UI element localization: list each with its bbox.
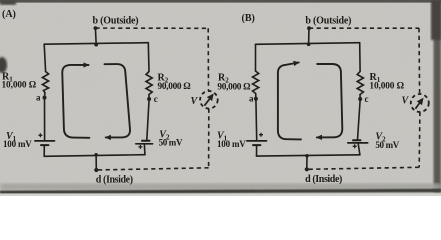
svg-text:c: c <box>365 94 369 104</box>
svg-text:c: c <box>154 94 158 104</box>
svg-text:100 mV: 100 mV <box>3 139 32 149</box>
svg-text:b (Outside): b (Outside) <box>305 16 351 27</box>
svg-text:10,000 Ω: 10,000 Ω <box>2 81 37 91</box>
svg-text:b (Outside): b (Outside) <box>93 16 139 27</box>
svg-text:d (Inside): d (Inside) <box>96 175 133 186</box>
svg-text:90,000 Ω: 90,000 Ω <box>217 83 251 93</box>
svg-text:10,000 Ω: 10,000 Ω <box>369 82 404 92</box>
svg-text:50 mV: 50 mV <box>159 138 183 148</box>
svg-text:a: a <box>249 94 254 104</box>
svg-text:90,000 Ω: 90,000 Ω <box>158 82 192 92</box>
svg-text:(B): (B) <box>242 13 255 24</box>
svg-text:50 mV: 50 mV <box>375 140 399 150</box>
svg-text:(A): (A) <box>2 9 16 20</box>
svg-text:d (Inside): d (Inside) <box>305 174 342 185</box>
svg-text:100 mV: 100 mV <box>217 139 246 149</box>
svg-text:a: a <box>36 93 41 103</box>
